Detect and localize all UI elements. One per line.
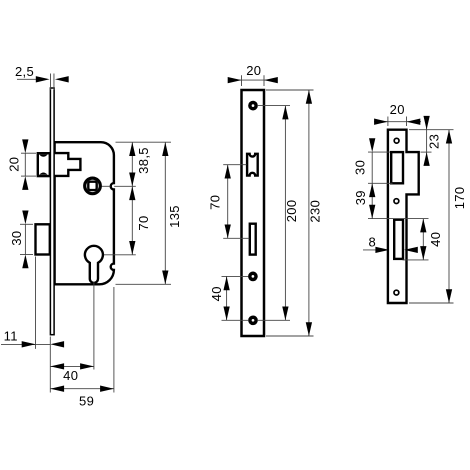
svg-text:20: 20 (6, 157, 21, 172)
svg-text:20: 20 (246, 63, 261, 78)
svg-text:11: 11 (4, 328, 18, 343)
svg-text:2,5: 2,5 (15, 64, 34, 79)
svg-text:30: 30 (353, 160, 368, 175)
svg-text:135: 135 (167, 205, 182, 228)
svg-text:40: 40 (209, 286, 224, 301)
svg-text:8: 8 (369, 235, 377, 250)
svg-text:170: 170 (452, 187, 467, 210)
svg-text:70: 70 (136, 215, 151, 230)
svg-text:39: 39 (353, 190, 368, 205)
svg-text:40: 40 (63, 368, 78, 383)
svg-text:59: 59 (79, 394, 94, 409)
svg-text:23: 23 (426, 134, 441, 149)
svg-text:38,5: 38,5 (136, 147, 151, 174)
svg-text:230: 230 (307, 200, 322, 223)
svg-text:40: 40 (428, 232, 443, 247)
svg-text:70: 70 (208, 195, 223, 210)
svg-text:30: 30 (9, 231, 24, 246)
svg-text:200: 200 (284, 200, 299, 223)
svg-text:20: 20 (390, 102, 405, 117)
